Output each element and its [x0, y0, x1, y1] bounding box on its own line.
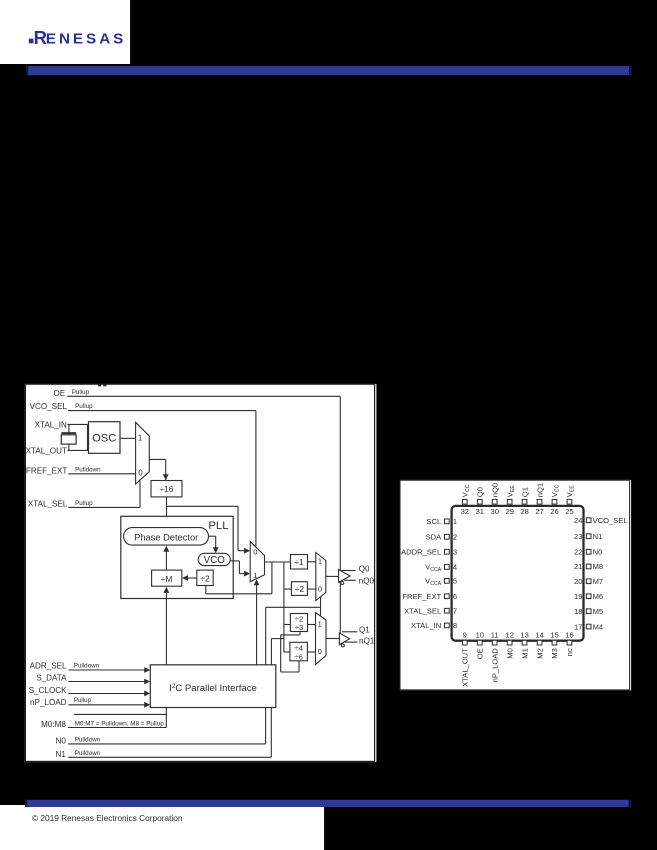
- svg-text:31: 31: [476, 507, 484, 516]
- svg-text:XTAL_OUT: XTAL_OUT: [461, 648, 470, 687]
- wire Q1 output: [342, 631, 357, 633]
- pin 21 M8 (right): [574, 562, 603, 571]
- svg-text:VCO_SEL: VCO_SEL: [30, 402, 68, 411]
- svg-text:VCO_SEL: VCO_SEL: [593, 516, 628, 525]
- pin 13 M1 (bottom): [520, 630, 529, 658]
- wire mux U4 to Q0 buffer: [326, 575, 339, 577]
- wire S_DATA to I2C: [68, 681, 144, 683]
- svg-text:27: 27: [535, 507, 543, 516]
- crystal Y1: [61, 432, 76, 434]
- svg-text:S_CLOCK: S_CLOCK: [29, 686, 67, 695]
- wire mux U6 to Q1 buffer: [326, 638, 339, 640]
- Renesas logo: [29, 27, 124, 48]
- wire nQ1 output: [345, 641, 358, 643]
- wire mux U3 output to /1: [265, 561, 291, 563]
- svg-text:24: 24: [574, 516, 582, 525]
- svg-text:11: 11: [491, 630, 499, 639]
- svg-text:10: 10: [476, 630, 484, 639]
- wire ADR_SEL to I2C: [68, 669, 144, 671]
- pin assignment panel: [400, 480, 631, 691]
- svg-text:nQ0: nQ0: [490, 483, 499, 497]
- svg-text:M1: M1: [520, 648, 529, 659]
- pin 9 XTAL_OUT (bottom): [461, 630, 470, 687]
- pin 12 M0 (bottom): [505, 630, 514, 658]
- wire /2 to /M: [188, 577, 197, 579]
- svg-text:Pullup: Pullup: [74, 697, 92, 704]
- svg-text:17: 17: [574, 622, 582, 631]
- wire N1 to I2C: [68, 756, 271, 758]
- wire VCO_SEL vertical to mux U3: [255, 411, 257, 549]
- wire /M to phase detector: [165, 552, 167, 571]
- svg-text:1: 1: [453, 517, 457, 526]
- svg-text:21: 21: [574, 562, 582, 571]
- svg-text:nc: nc: [565, 648, 574, 656]
- svg-text:30: 30: [490, 507, 498, 516]
- clipped marks at top edge: [98, 385, 101, 387]
- PLL block: [121, 516, 233, 598]
- svg-text:OE: OE: [476, 648, 485, 659]
- svg-text:÷16: ÷16: [160, 484, 174, 494]
- svg-text:SCL: SCL: [426, 517, 441, 526]
- svg-text:0: 0: [253, 548, 257, 557]
- wire /4/6 to mux U6: [307, 651, 315, 653]
- svg-text:N1: N1: [593, 532, 603, 541]
- I2C parallel interface U5: [150, 665, 275, 708]
- mux U3 (VCO select): [250, 542, 264, 582]
- pin 23 N1 (right): [574, 532, 602, 541]
- svg-text:Pulldown: Pulldown: [74, 663, 100, 670]
- svg-text:0: 0: [318, 647, 322, 656]
- block diagram panel: [24, 384, 376, 762]
- divider /2 (feedback): [197, 570, 213, 585]
- pin 22 N0 (right): [574, 547, 602, 556]
- wire VCO_SEL horizontal: [68, 410, 256, 412]
- divider /M: [152, 570, 182, 586]
- svg-text:Pulldown: Pulldown: [75, 466, 101, 473]
- wire divider mode link: [299, 632, 301, 635]
- svg-text:Q1: Q1: [359, 625, 370, 634]
- svg-text:÷3: ÷3: [295, 623, 303, 632]
- svg-text:23: 23: [574, 532, 582, 541]
- pin 24 VCO_SEL (right): [574, 516, 628, 525]
- svg-text:XTAL_IN: XTAL_IN: [35, 420, 67, 429]
- svg-text:Pulldown: Pulldown: [75, 750, 101, 757]
- divider /2 (Q0 path): [291, 582, 307, 596]
- svg-text:7: 7: [453, 607, 457, 616]
- wire OE horizontal: [67, 395, 340, 397]
- svg-text:Q0: Q0: [359, 564, 370, 573]
- wire /16 output branch to mux U3 input 0: [167, 505, 239, 507]
- pin 27 nQ1 (top): [535, 483, 544, 516]
- svg-text:FREF_EXT: FREF_EXT: [26, 466, 67, 475]
- svg-text:M6: M6: [593, 592, 604, 601]
- svg-text:9: 9: [463, 630, 467, 639]
- wire Q0 output: [342, 570, 356, 572]
- svg-text:SDA: SDA: [426, 532, 443, 541]
- pin 30 nQ0 (top): [490, 483, 499, 516]
- pin 4 Vcca (left): [425, 563, 457, 573]
- svg-text:Phase Detector: Phase Detector: [134, 532, 198, 542]
- pin 11 nP_LOAD (bottom): [490, 630, 499, 682]
- pin 7 XTAL_SEL (left): [404, 607, 457, 616]
- wire N0 to I2C: [68, 743, 265, 745]
- pin 28 Q1 (top): [520, 487, 529, 516]
- wire feedback /2 tap: [271, 562, 273, 594]
- divider /2 /3: [290, 614, 307, 632]
- pin 6 FREF_EXT (left): [402, 592, 457, 601]
- pin 32 Vcc (top): [461, 484, 471, 515]
- svg-text:XTAL_OUT: XTAL_OUT: [26, 447, 67, 456]
- mux U4 (Q0 divider select): [316, 553, 326, 601]
- pin 10 OE (bottom): [476, 630, 485, 659]
- svg-text:4: 4: [453, 563, 457, 572]
- buffer Q1: [339, 633, 349, 645]
- svg-text:÷1: ÷1: [294, 557, 304, 567]
- svg-text:OE: OE: [53, 389, 65, 398]
- svg-text:÷2: ÷2: [200, 573, 210, 583]
- svg-text:N1: N1: [56, 750, 67, 759]
- pin 3 ADDR_SEL (left): [401, 548, 457, 557]
- wire XTAL_IN: [68, 423, 88, 425]
- svg-text:M4: M4: [593, 622, 604, 631]
- pin 31 Q0 (top): [476, 487, 485, 516]
- wire I2C select to mux U3: [256, 585, 258, 665]
- pin 16 nc (bottom): [565, 630, 574, 656]
- svg-text:Q0: Q0: [476, 487, 485, 497]
- svg-text:Q1: Q1: [520, 487, 529, 497]
- wire nP_LOAD to I2C: [68, 704, 144, 706]
- svg-text:2: 2: [453, 532, 457, 541]
- divider /4 /6: [290, 642, 308, 661]
- svg-text:nP_LOAD: nP_LOAD: [490, 648, 499, 683]
- divider /16: [151, 481, 182, 497]
- svg-text:1: 1: [253, 571, 257, 580]
- svg-text:0: 0: [138, 468, 143, 477]
- pin 14 M2 (bottom): [535, 630, 544, 658]
- svg-text:VCO: VCO: [204, 555, 226, 566]
- svg-text:12: 12: [505, 630, 513, 639]
- phase detector: [124, 528, 209, 546]
- svg-text:÷6: ÷6: [294, 652, 302, 661]
- svg-text:I2C Parallel Interface: I2C Parallel Interface: [169, 683, 257, 694]
- wire N0 select to mux U4 and mux U6: [320, 597, 322, 618]
- wire M0:M8 bus to I2C: [68, 727, 166, 729]
- svg-text:M0: M0: [505, 648, 514, 659]
- svg-text:32: 32: [461, 507, 469, 516]
- svg-text:÷2: ÷2: [295, 584, 305, 594]
- wire clock drop to dividers: [283, 562, 285, 652]
- svg-text:M0:M7 = Pulldown, M8 = Pullup: M0:M7 = Pulldown, M8 = Pullup: [75, 720, 164, 727]
- svg-text:Pullup: Pullup: [75, 403, 93, 410]
- pin 1 SCL (left): [426, 517, 457, 526]
- svg-text:nP_LOAD: nP_LOAD: [30, 698, 67, 707]
- svg-text:nQ1: nQ1: [359, 637, 375, 646]
- footer panel: [0, 805, 324, 850]
- wire /1 to mux U4: [308, 561, 316, 563]
- top blue bar: [26, 66, 629, 75]
- svg-text:22: 22: [574, 547, 582, 556]
- svg-text:0: 0: [318, 585, 322, 594]
- svg-text:M8: M8: [593, 562, 604, 571]
- svg-text:N0: N0: [593, 547, 603, 556]
- svg-text:FREF_EXT: FREF_EXT: [402, 592, 441, 601]
- wire nQ0 output: [344, 579, 356, 581]
- svg-text:1: 1: [138, 434, 142, 443]
- svg-text:14: 14: [535, 630, 543, 639]
- wire XTAL_OUT to OSC: [68, 444, 70, 450]
- oscillator OSC: [89, 422, 121, 454]
- svg-text:÷4: ÷4: [294, 644, 302, 653]
- wire I2C control to divider select: [271, 638, 284, 640]
- svg-text:15: 15: [550, 630, 558, 639]
- svg-text:6: 6: [453, 592, 457, 601]
- wire FREF_EXT to mux U2: [68, 473, 135, 475]
- pin 29 Vee (top): [505, 485, 515, 516]
- wire VCO output to mux U3 input 1: [230, 560, 239, 562]
- mux U2 (reference select): [136, 422, 150, 484]
- svg-text:M2: M2: [535, 648, 544, 659]
- pin 25 Vee (top): [565, 485, 575, 516]
- pin 19 M6 (right): [574, 592, 603, 601]
- svg-text:XTAL_SEL: XTAL_SEL: [28, 499, 68, 508]
- pin 20 M7 (right): [574, 577, 603, 586]
- svg-text:20: 20: [574, 577, 582, 586]
- svg-text:13: 13: [520, 630, 528, 639]
- svg-text:Pullup: Pullup: [75, 500, 93, 507]
- svg-text:XTAL_IN: XTAL_IN: [411, 621, 441, 630]
- svg-text:18: 18: [574, 607, 582, 616]
- pin 17 M4 (right): [574, 622, 603, 631]
- svg-text:XTAL_SEL: XTAL_SEL: [404, 607, 441, 616]
- chip body outline: [452, 506, 584, 641]
- pin 8 XTAL_IN (left): [411, 621, 457, 630]
- oscillator VCO: [198, 553, 230, 565]
- wire OE vertical to output buffers: [339, 396, 341, 633]
- svg-text:29: 29: [505, 507, 513, 516]
- svg-text:© 2019 Renesas Electronics Cor: © 2019 Renesas Electronics Corporation: [32, 813, 183, 823]
- pin 5 Vcca (left): [425, 577, 457, 587]
- svg-text:1: 1: [318, 557, 322, 566]
- svg-text:ADR_SEL: ADR_SEL: [30, 662, 67, 671]
- svg-text:÷M: ÷M: [161, 574, 173, 584]
- svg-text:M0:M8: M0:M8: [41, 720, 66, 729]
- svg-text:Pulldown: Pulldown: [75, 737, 101, 744]
- wire S_CLOCK to I2C: [68, 693, 144, 695]
- pin 18 M5 (right): [574, 607, 603, 616]
- svg-text:N0: N0: [56, 736, 67, 745]
- pin 26 Vcc (top): [550, 484, 560, 515]
- wire XTAL_SEL select: [68, 506, 140, 508]
- wire /2/3 to mux U6: [308, 624, 316, 626]
- logo panel: [0, 0, 131, 64]
- svg-text:PLL: PLL: [208, 520, 228, 532]
- svg-text:nQ0: nQ0: [359, 576, 375, 585]
- wire /2 to mux U4: [307, 588, 315, 590]
- pin 15 M3 (bottom): [550, 630, 559, 658]
- svg-text:M5: M5: [593, 607, 604, 616]
- svg-text:S_DATA: S_DATA: [36, 674, 67, 683]
- wire /16 output to phase detector: [166, 497, 168, 521]
- svg-text:M7: M7: [593, 577, 604, 586]
- svg-text:nQ1: nQ1: [535, 483, 544, 497]
- svg-text:3: 3: [453, 548, 457, 557]
- wire phase detector to VCO: [209, 535, 216, 537]
- svg-text:25: 25: [565, 507, 573, 516]
- wire OSC to mux U2: [120, 437, 136, 439]
- svg-text:19: 19: [574, 592, 582, 601]
- mux U6 (Q1 divider select): [316, 613, 327, 665]
- svg-text:Pullup: Pullup: [72, 389, 90, 396]
- svg-text:OSC: OSC: [92, 432, 116, 444]
- svg-text:ADDR_SEL: ADDR_SEL: [401, 548, 441, 557]
- pin 2 SDA (left): [426, 532, 458, 541]
- svg-text:28: 28: [520, 507, 528, 516]
- svg-text:8: 8: [453, 621, 457, 630]
- wire I2C to /M (M value): [165, 593, 167, 665]
- svg-text:26: 26: [550, 507, 558, 516]
- svg-text:16: 16: [565, 630, 573, 639]
- divider /1: [291, 555, 308, 570]
- bottom blue bar: [25, 800, 629, 807]
- svg-text:1: 1: [318, 620, 322, 629]
- svg-text:5: 5: [453, 577, 457, 586]
- wire mux U2 output to divider /16: [149, 458, 165, 460]
- buffer Q0: [339, 570, 351, 583]
- svg-text:M3: M3: [550, 648, 559, 659]
